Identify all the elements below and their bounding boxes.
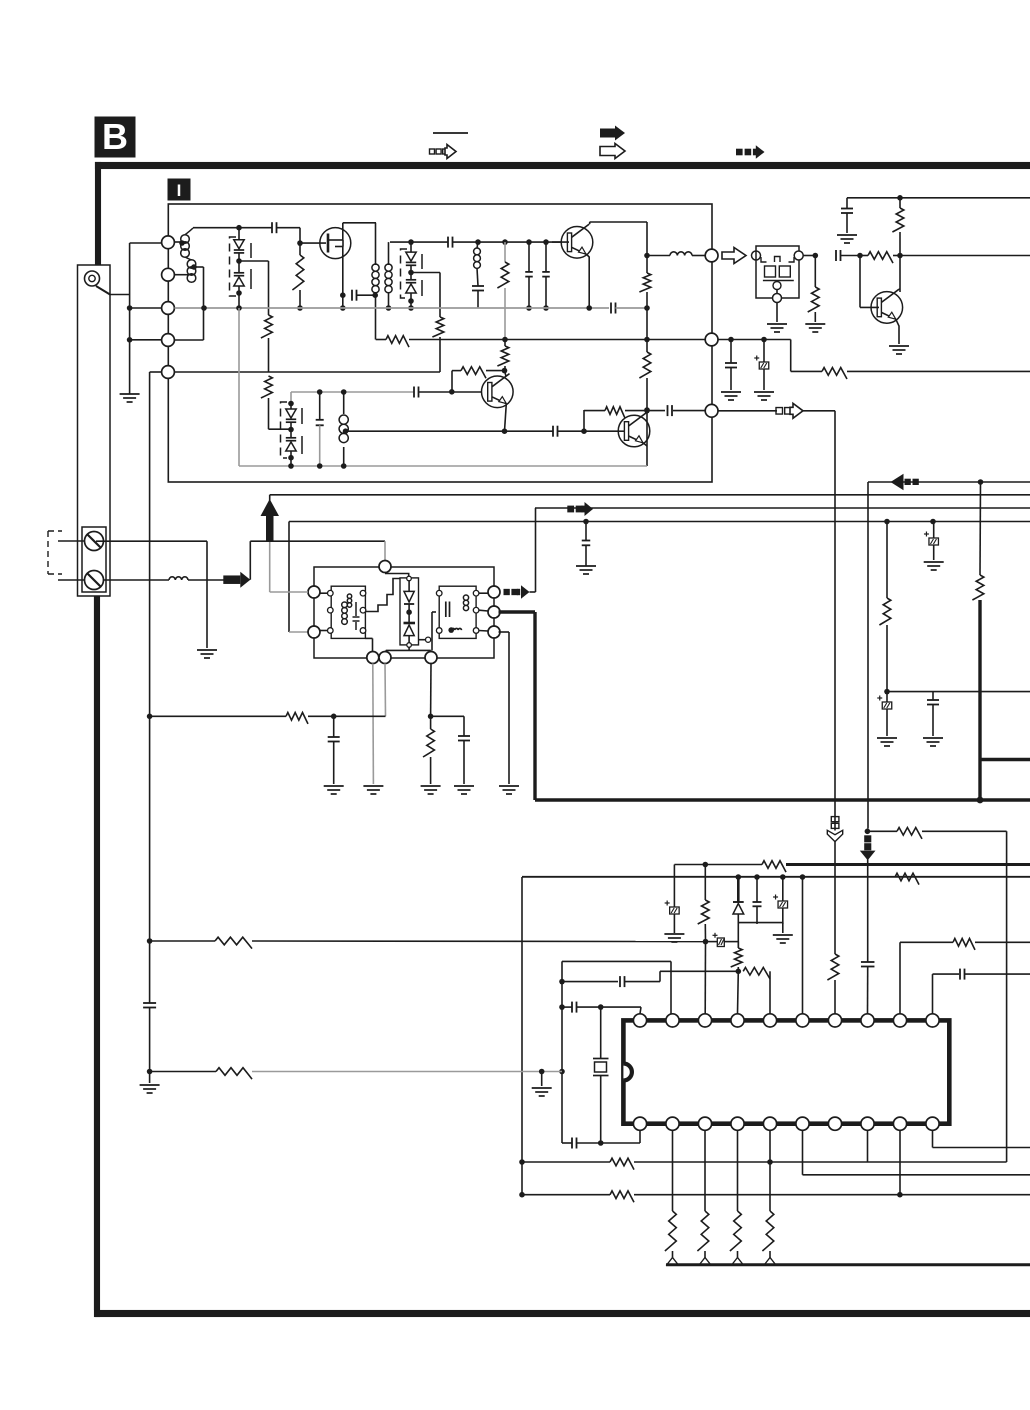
wire pin9 up	[899, 942, 901, 1013]
wire pin5 up	[769, 971, 771, 1013]
junction primary bottom	[372, 292, 378, 298]
xfmr pin l2	[328, 607, 334, 613]
capacitor y974	[959, 969, 961, 980]
ground x847	[837, 234, 857, 236]
resistor x980	[972, 575, 983, 600]
capacitor x320	[316, 419, 324, 421]
junction x529 top	[526, 239, 532, 245]
filled arrow out1	[517, 589, 520, 595]
wire x764 a	[763, 340, 765, 363]
subbox left wire gray	[270, 591, 308, 593]
capacitor x546	[542, 271, 550, 273]
chassis triangle 3	[732, 1258, 743, 1265]
wire x900 c	[899, 256, 901, 293]
rail y941 b	[252, 940, 706, 943]
wire D1 mid right	[239, 260, 269, 262]
connector pin circle 2	[162, 268, 175, 281]
xfmr pin r3	[360, 628, 366, 634]
wire x738 b	[737, 914, 739, 924]
rectifier top pin	[407, 576, 412, 581]
capacitor x847	[841, 208, 853, 210]
up arrow to rail y495	[261, 499, 280, 516]
junction bus2 291	[288, 463, 294, 469]
junction x647 y339	[644, 337, 650, 343]
wire crystal a	[600, 1007, 602, 1058]
wire x706 to pin3	[704, 941, 706, 1014]
transformer T2 primary	[372, 264, 379, 271]
wire x706 b	[704, 924, 706, 942]
wire x268 mid	[268, 338, 270, 372]
wire Q4 collector	[645, 411, 648, 413]
wire x505 a	[504, 242, 506, 262]
resistor x430	[423, 729, 434, 757]
wire x529 a	[528, 242, 530, 272]
rail y508	[535, 507, 1030, 509]
wire y941 d	[724, 941, 738, 943]
wire Q5 base vert	[859, 256, 861, 308]
subbox circle right2	[488, 606, 500, 618]
wire pin8 down	[867, 1130, 869, 1162]
junction bus 589	[586, 305, 592, 311]
rail y942 b	[975, 941, 1030, 943]
wire circle4 right up part2	[203, 308, 205, 340]
wire x933 a	[933, 522, 935, 539]
wire x464 b	[463, 741, 465, 785]
capacitor electrolytic x887b	[882, 702, 892, 709]
wire coilB tap lead	[194, 266, 204, 268]
junction collector bias	[502, 368, 508, 374]
dashed box D1 left	[230, 237, 237, 296]
ground x675	[664, 933, 684, 935]
wire Q3 emitter	[505, 404, 507, 432]
capacitor electrolytic x675	[670, 907, 680, 914]
resistor y1162	[610, 1158, 634, 1169]
resistor pulldown 3	[730, 1211, 741, 1251]
wire circle5 left	[150, 371, 162, 373]
wire x782 a	[782, 877, 784, 901]
connector screw terminal 2	[85, 571, 104, 590]
subbox circle right1	[488, 586, 500, 598]
rail y981 b	[625, 981, 661, 983]
wire x344 a	[343, 392, 345, 414]
rectifier stem bottom	[408, 636, 410, 643]
junction y1194 x900	[897, 1192, 903, 1198]
junction x149 y1071	[147, 1069, 153, 1075]
rail y431 a	[346, 430, 554, 432]
wire coil to arrow	[188, 579, 224, 581]
wire x268 upper	[268, 261, 270, 315]
ground x764	[754, 391, 774, 393]
resistor x505 lower	[497, 346, 508, 366]
inner transformer capacitor	[355, 602, 357, 616]
wire x660 up	[659, 971, 661, 981]
wire long vertical x149 upper	[149, 372, 151, 1003]
rail y410 b	[625, 410, 665, 412]
rail y1194 a	[522, 1194, 610, 1196]
IC U1 pin 19 (bottom)	[666, 1117, 679, 1130]
junction x647 y255	[644, 253, 650, 259]
capacitor y1007	[571, 1002, 573, 1013]
capacitor y255	[835, 250, 837, 261]
relay internal bar	[763, 280, 794, 282]
wire source to bus	[342, 295, 344, 308]
rail y1007 b	[577, 1006, 642, 1008]
ground left column	[120, 393, 140, 395]
subbox circleB1 stem	[372, 638, 374, 651]
bus y308 gray a	[175, 307, 610, 309]
rail y1143 a	[562, 1142, 572, 1144]
junction y255 x815	[813, 253, 819, 259]
wire coilA to circleA	[692, 255, 705, 257]
capacitor x478	[472, 285, 484, 287]
wire Q5 emitter down	[896, 319, 899, 344]
junction coil tap	[343, 428, 349, 434]
subbox circle top	[379, 561, 391, 573]
wire x440 lower	[439, 337, 441, 372]
wire pulldown 2 upper	[704, 1130, 706, 1211]
junction y521 x586	[583, 519, 589, 525]
wire rail y242 b	[453, 241, 562, 243]
chassis triangle 4	[765, 1258, 776, 1265]
junction x505 y339	[502, 337, 508, 343]
wire subbox r3 down	[499, 631, 510, 633]
wire x440 upper	[439, 273, 441, 318]
wire x868 to pin8	[867, 967, 869, 1014]
wire vertical node column x130	[129, 243, 131, 394]
thick rail y756	[980, 758, 1030, 761]
rail y716 b	[308, 715, 386, 717]
chassis triangle 2	[700, 1258, 711, 1265]
wire collector down x647	[646, 222, 648, 256]
ground x541	[532, 1087, 552, 1089]
capacitor x731	[725, 362, 737, 364]
junction y877 x782	[780, 874, 786, 880]
wire bias b	[486, 370, 505, 372]
wire secondary top up	[388, 242, 390, 264]
IC U1 pin 12 (bottom)	[893, 1117, 906, 1130]
resistor x647 mid	[639, 352, 650, 378]
bus y308 gray b	[616, 307, 648, 309]
IC U1 pin 3 (top)	[698, 1014, 711, 1027]
wire x300 bottom	[299, 290, 301, 308]
capacitor y981	[619, 976, 621, 987]
wire x835 down upper	[834, 411, 836, 831]
resistor y942	[953, 939, 975, 950]
rail y521	[289, 521, 1030, 523]
rail y392 gray	[291, 391, 414, 393]
chassis triangle 1	[667, 1258, 678, 1265]
rail y1162 b	[634, 1161, 1007, 1163]
wire pulldown 1 upper	[672, 1130, 674, 1211]
IC U1 pin 9 (top)	[893, 1014, 906, 1027]
junction y431 x584	[581, 428, 587, 434]
capacitor rail y392	[413, 387, 415, 398]
IC U1 pin 8 (top)	[861, 1014, 874, 1027]
bus y466 gray	[239, 465, 647, 467]
rail y481	[868, 481, 1030, 483]
connector earth pin hook	[96, 286, 110, 295]
rail y831 b	[922, 830, 1007, 832]
rectifier bottom stem	[408, 647, 410, 650]
wire Q2 base	[552, 241, 569, 243]
outblk pin r1	[473, 590, 479, 596]
wire rail y242 a	[390, 241, 448, 243]
inductor output A	[670, 252, 692, 256]
wire primary bottom down	[375, 292, 377, 340]
resistor x268 lower	[261, 376, 272, 398]
wire x207 down	[206, 541, 208, 648]
wire bias a	[452, 370, 461, 372]
wire Q3 collector	[505, 371, 507, 377]
wire x900 b	[899, 232, 901, 256]
junction y392 x344	[341, 389, 347, 395]
thick wire subbox right	[499, 610, 536, 613]
IC U1 pin 16 (bottom)	[763, 1117, 776, 1130]
rectifier diode top	[404, 591, 414, 602]
wire Q2 collector up	[589, 222, 591, 224]
wire x505 c	[504, 340, 506, 347]
rail y392 black	[419, 391, 482, 393]
junction D1 mid	[236, 258, 242, 264]
wire x203 upper	[203, 267, 205, 308]
capacitor electrolytic x764	[759, 362, 769, 369]
wire gate lead	[300, 242, 326, 244]
resistor pulldown 1	[665, 1211, 676, 1251]
wire pin6 down	[802, 1130, 804, 1174]
subbox wire lc2	[321, 630, 328, 632]
dashed box D3 right	[421, 254, 423, 296]
outblk wire r1	[479, 592, 488, 594]
xfmr pin r1	[360, 590, 366, 596]
wire top rail y228 a	[193, 227, 272, 229]
ground x731	[721, 391, 741, 393]
ground x933b	[923, 737, 943, 739]
resistor y716	[286, 713, 308, 724]
ground x815	[805, 323, 825, 325]
junction x505 top	[502, 239, 508, 245]
rail y941 a	[150, 940, 215, 942]
junction D3 top	[408, 239, 414, 245]
open arrow output A	[722, 248, 746, 264]
left arrow bleed	[891, 474, 904, 490]
wire drain to transformer	[343, 222, 376, 224]
connector pin circle 3	[162, 302, 175, 315]
wire pulldown 2 lower	[704, 1251, 706, 1258]
IC U1 pin 14 (bottom)	[828, 1117, 841, 1130]
legend filled squares	[736, 149, 743, 156]
wire x782 gnd stem	[782, 923, 784, 933]
wire x529 b	[528, 277, 530, 308]
wire mains L to screw1	[58, 540, 85, 542]
ground x149	[140, 1084, 160, 1086]
wire x756 a	[756, 877, 758, 902]
resistor rail y339	[386, 336, 409, 347]
junction D3 mid	[408, 270, 414, 276]
subbox circle bottom1	[367, 652, 379, 664]
junction D1 bottom	[236, 290, 242, 296]
resistor x647 upper	[639, 273, 650, 292]
relay/filter block outline	[756, 246, 799, 298]
capacitor rail y242	[447, 237, 449, 248]
open down arrow x835	[831, 817, 839, 822]
resistor bias	[461, 367, 486, 378]
ground x782	[773, 934, 793, 936]
thick earth lead below connector	[94, 596, 100, 1310]
polarized capacitor y941	[717, 938, 724, 947]
junction bus 546	[543, 305, 549, 311]
junction y1071 x541	[539, 1069, 545, 1075]
dual diode D1	[234, 240, 244, 249]
wire x647 f	[646, 410, 648, 466]
ground Q5	[889, 345, 909, 347]
junction y481 x980	[978, 479, 984, 485]
wire x464 a	[463, 716, 465, 736]
rail y974 b	[965, 973, 1030, 975]
rectifier stem top	[408, 581, 410, 592]
rail y410 c	[673, 410, 705, 412]
junction x562 y1007	[559, 1004, 565, 1010]
xfmr pin l3	[328, 628, 334, 634]
junction x342 bus	[340, 305, 346, 311]
wire x535b	[535, 508, 537, 592]
junction source node	[340, 292, 346, 298]
wire pulldown 4 lower	[769, 1251, 771, 1258]
wire x738 d	[737, 967, 739, 971]
rectifier bottom rail	[386, 649, 431, 651]
wire circle1 left	[130, 242, 162, 244]
chassis rail y1265	[666, 1263, 1030, 1266]
output circle A	[705, 249, 718, 262]
wire x847 b	[846, 213, 848, 233]
junction D3 bottom	[408, 298, 414, 304]
junction y410 x647b	[644, 408, 650, 414]
wire circleB right	[718, 339, 791, 341]
wire D2 top corner	[290, 392, 292, 404]
wire pin1 up	[640, 1007, 641, 1014]
junction y877 x803	[800, 874, 806, 880]
relay pin bottom link	[776, 290, 778, 294]
resistor pulldown 2	[697, 1211, 708, 1251]
wire x835 to pin7	[834, 980, 836, 1014]
capacitor x586	[582, 540, 591, 542]
wire D1 bottom to bus	[238, 293, 240, 308]
capacitor x149	[143, 1002, 156, 1004]
resistor y971	[743, 968, 770, 979]
wire up-arrow to rail	[269, 495, 271, 501]
junction x390 bus	[386, 305, 392, 311]
rail y1143 b	[577, 1142, 641, 1144]
junction diode top	[236, 225, 242, 231]
rectifier diode bottom	[404, 622, 416, 625]
capacitor y1143	[571, 1138, 573, 1149]
wire x756 b	[756, 907, 758, 925]
rail y981 a	[562, 981, 618, 983]
wire relay right	[803, 255, 815, 257]
capacitor rail y410	[667, 405, 669, 416]
wire circle5 row to x440	[175, 371, 441, 373]
rail y1174	[803, 1174, 1030, 1176]
resistor x900	[892, 208, 903, 232]
rail y924	[738, 922, 783, 924]
junction y716 x333	[331, 714, 337, 720]
junction bus2 320	[317, 463, 323, 469]
capacitor rail y431	[552, 426, 554, 437]
capacitor in bus y308	[610, 303, 612, 314]
subbox top circle stem	[386, 573, 409, 577]
resistor y255	[868, 252, 893, 263]
dashed box D1 right	[250, 243, 252, 289]
transformer T2 secondary	[385, 264, 392, 271]
IC U1 outline	[623, 1020, 949, 1123]
rail y1194 b	[634, 1194, 1030, 1196]
junction x562 y981	[559, 979, 565, 985]
junction y1162 x770	[767, 1159, 773, 1165]
ground relay	[767, 323, 787, 325]
ground x887	[877, 737, 897, 739]
wire circle4 right up part1	[175, 339, 204, 341]
subbox circle bottom3	[425, 652, 437, 664]
wire x764 b	[763, 369, 765, 390]
dual diode D2	[286, 409, 296, 418]
wire circle1 to coilA	[175, 241, 182, 243]
open squares arrow C	[776, 408, 783, 415]
wire pulldown 4 upper	[769, 1162, 771, 1211]
wire x586 a	[585, 522, 587, 541]
dashed box D2 right	[301, 408, 303, 454]
frame bottom bar	[95, 1310, 1030, 1317]
wire x706 a	[704, 865, 706, 901]
wire D3 mid right	[411, 272, 440, 274]
wire x887 c	[886, 692, 888, 702]
IC U1 pin 4 (top)	[731, 1014, 744, 1027]
junction x130 y308	[127, 305, 133, 311]
resistor x738	[731, 948, 742, 967]
wire pin10 up	[932, 974, 934, 1014]
wire x505 d	[504, 366, 506, 371]
wire bias vert	[451, 371, 453, 392]
connector screw terminal 1	[85, 532, 104, 551]
rectifier block outline	[400, 578, 419, 645]
xfmr pin l1	[328, 590, 334, 596]
outblk inductor v	[463, 595, 468, 600]
connector J1 outer box	[78, 265, 111, 596]
wire x333 a	[333, 716, 335, 737]
wire x675 a	[673, 865, 675, 908]
wire x900 a	[899, 198, 901, 208]
wire relay bottom down	[776, 303, 778, 323]
resistor x815	[808, 287, 819, 312]
filled squares out rail508	[567, 506, 574, 513]
junction x411 bus	[408, 305, 414, 311]
inner transformer winding1	[342, 602, 348, 608]
IC U1 pin 6 (top)	[796, 1014, 809, 1027]
wire pin10 down	[932, 1130, 934, 1147]
wire x505 b	[504, 288, 506, 340]
inductor line-filter winding A	[181, 235, 190, 244]
transformer T2 secondary lead	[388, 263, 390, 265]
wire corner x790 down	[790, 340, 792, 372]
rail y1071 black	[150, 1071, 216, 1073]
wire x933 y691 b	[932, 705, 934, 737]
thick wire x980	[978, 600, 981, 800]
MOSFET Q1	[320, 228, 351, 259]
dashed box D3 left	[401, 249, 408, 298]
wire Q2 collector rail	[590, 221, 648, 223]
wire D2 bottom to bus2	[290, 458, 292, 466]
junction x647 y410	[644, 407, 650, 413]
wire Q2 emitter down	[586, 254, 589, 308]
junction MOSFET gate feed	[297, 240, 303, 246]
